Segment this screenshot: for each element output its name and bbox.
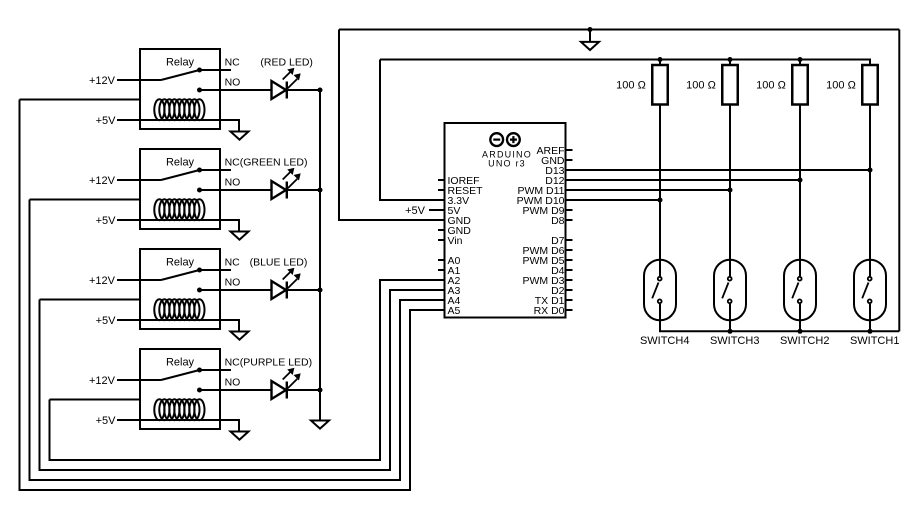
switch S4 SWITCH4 [644, 260, 676, 321]
wire GND pin to top ground bus [339, 30, 445, 221]
relay K4 switch arm [161, 370, 200, 380]
wire +12V to relay K2 common [117, 179, 161, 181]
svg-text:+5V: +5V [96, 115, 117, 127]
wire relay K1 NO to LED anode [200, 89, 272, 91]
junction LED ground bus [318, 188, 323, 193]
pin A5 (left) stub [438, 309, 445, 311]
wire resistor R3 bottom to switch [799, 105, 801, 277]
junction LED ground bus [318, 288, 323, 293]
relay K1 [140, 49, 220, 129]
pin D12 (right) stub [566, 179, 573, 181]
junction D12 net at column x=800 [798, 178, 803, 183]
junction resistor R2 top on 3.3V bus [728, 57, 733, 62]
pin AREF (right) stub [566, 149, 573, 151]
svg-text:A5: A5 [448, 305, 461, 317]
pin D7 (right) stub [566, 239, 573, 241]
svg-text:Vin: Vin [448, 235, 463, 247]
svg-text:NO: NO [225, 377, 241, 389]
wire relay K2 coil drive to left bus [30, 199, 141, 201]
switch S3 SWITCH3 [714, 260, 746, 321]
pin A0 (left) stub [438, 259, 445, 261]
LED D1 [272, 69, 301, 100]
svg-text:Relay: Relay [166, 257, 195, 269]
relay K1 NO contact [197, 88, 202, 93]
relay K4 NO contact [197, 388, 202, 393]
junction resistor R1 top on 3.3V bus [658, 57, 663, 62]
pin PWM D3 (right) stub [566, 279, 573, 281]
wire +5V to relay K4 coil [117, 420, 239, 432]
resistor R2 100 ohm [722, 60, 738, 105]
svg-text:(RED LED): (RED LED) [260, 56, 313, 68]
pin RESET (left) stub [438, 189, 445, 191]
resistor R3 100 ohm [792, 60, 808, 105]
svg-text:NC(GREEN LED): NC(GREEN LED) [225, 156, 308, 168]
junction LED ground bus [318, 88, 323, 93]
svg-text:100 Ω: 100 Ω [686, 80, 716, 92]
wire relay K2 NO to LED anode [200, 189, 272, 191]
relay K4 NC contact [197, 368, 231, 373]
resistor R4 100 ohm [862, 60, 878, 105]
wire resistor R4 bottom to switch [869, 105, 871, 277]
svg-text:SWITCH2: SWITCH2 [780, 335, 830, 347]
svg-text:SWITCH4: SWITCH4 [640, 335, 690, 347]
pin PWM D5 (right) stub [566, 259, 573, 261]
ground symbol on top bus [581, 27, 599, 50]
wire 3.3V pin to resistor bus [380, 60, 445, 201]
junction LED ground bus [318, 388, 323, 393]
junction SWITCH3 on ground bus [728, 329, 733, 334]
svg-text:Relay: Relay [166, 57, 195, 69]
junction D10 net at column x=660 [658, 198, 663, 203]
svg-text:D8: D8 [551, 215, 565, 227]
ground symbol below relay K3 [231, 332, 249, 340]
Arduino logo [490, 133, 520, 146]
switch S2 SWITCH2 [784, 260, 816, 321]
pin A4 (left) stub [438, 299, 445, 301]
wire A4 to relay K2 coil [30, 200, 445, 481]
wire relay K3 coil drive to left bus [40, 299, 141, 301]
relay K2 switch arm [161, 170, 200, 180]
pin GND (left) stub [438, 229, 445, 231]
pin IOREF (left) stub [438, 179, 445, 181]
wire A5 to relay K1 coil [20, 100, 445, 491]
svg-text:NC(PURPLE LED): NC(PURPLE LED) [225, 356, 313, 368]
svg-text:NO: NO [225, 277, 241, 289]
wire top ground bus [339, 29, 899, 31]
svg-text:+5V: +5V [405, 205, 426, 217]
pin 5V (left) stub [438, 209, 445, 211]
wire LED D1 cathode to LED ground bus [287, 89, 320, 91]
relay K3 NC contact [197, 268, 231, 273]
svg-text:100 Ω: 100 Ω [826, 80, 856, 92]
svg-text:SWITCH1: SWITCH1 [850, 335, 900, 347]
wire relay K3 NO to LED anode [200, 289, 272, 291]
switch S1 SWITCH1 [854, 260, 886, 321]
wire switch SWITCH4 bottom to ground bus [659, 304, 661, 331]
pin A3 (left) stub [438, 289, 445, 291]
wire +5V stub to 5V pin [429, 209, 445, 211]
relay K4 coil [154, 399, 204, 420]
svg-text:Relay: Relay [166, 357, 195, 369]
relay K1 NC contact [197, 68, 231, 73]
wire switch SWITCH1 bottom to ground bus [869, 304, 871, 331]
svg-text:+5V: +5V [96, 215, 117, 227]
pin GND (right) stub [566, 159, 573, 161]
junction SWITCH2 on ground bus [798, 329, 803, 334]
relay K2 coil [154, 199, 204, 220]
wire relay K4 coil drive to left bus [50, 399, 141, 401]
ground symbol below relay K4 [231, 432, 249, 440]
svg-text:Relay: Relay [166, 157, 195, 169]
svg-text:+12V: +12V [89, 375, 116, 387]
wire switch ground bus [660, 320, 899, 331]
svg-text:NO: NO [225, 177, 241, 189]
wire LED D2 cathode to LED ground bus [287, 189, 320, 191]
pin 3.3V (left) stub [438, 199, 445, 201]
pin PWM D11 (right) stub [566, 189, 573, 191]
pin D2 (right) stub [566, 289, 573, 291]
wire +12V to relay K3 common [117, 279, 161, 281]
svg-text:+5V: +5V [96, 315, 117, 327]
relay K3 [140, 249, 220, 329]
wire D12 to switch2 column [566, 179, 801, 181]
svg-text:RX D0: RX D0 [534, 305, 565, 317]
wire D13 to switch1 column [566, 169, 871, 171]
svg-text:+5V: +5V [96, 415, 117, 427]
wire +12V to relay K4 common [117, 379, 161, 381]
pin A1 (left) stub [438, 269, 445, 271]
wire A3 to relay K3 coil [40, 290, 445, 470]
wire LED D3 cathode to LED ground bus [287, 289, 320, 291]
pin RX D0 (right) stub [566, 309, 573, 311]
svg-text:SWITCH3: SWITCH3 [710, 335, 760, 347]
wire +5V to relay K1 coil [117, 120, 239, 132]
pin D8 (right) stub [566, 219, 573, 221]
relay K2 NO contact [197, 188, 202, 193]
svg-text:100 Ω: 100 Ω [756, 80, 786, 92]
pin PWM D6 (right) stub [566, 249, 573, 251]
wire 3.3V resistor bus [380, 60, 870, 66]
wire relay K1 coil drive to left bus [20, 99, 141, 101]
junction D11 net at column x=730 [728, 188, 733, 193]
pin D13 (right) stub [566, 169, 573, 171]
ground symbol below relay K2 [231, 232, 249, 240]
relay K4 [140, 349, 220, 429]
wire A2 to relay K4 coil [50, 280, 445, 460]
svg-text:(BLUE LED): (BLUE LED) [250, 256, 308, 268]
svg-text:+12V: +12V [89, 275, 116, 287]
wire +5V to relay K3 coil [117, 320, 239, 332]
svg-text:UNO r3: UNO r3 [488, 159, 526, 169]
LED D3 [272, 269, 301, 300]
junction resistor R3 top on 3.3V bus [798, 57, 803, 62]
relay K2 NC contact [197, 168, 231, 173]
pin GND (left) stub [438, 219, 445, 221]
relay K2 [140, 149, 220, 229]
relay K3 switch arm [161, 270, 200, 280]
wire switch SWITCH2 bottom to ground bus [799, 304, 801, 331]
wire resistor R1 bottom to switch [659, 105, 661, 277]
ground symbol LED bus [311, 421, 329, 429]
wire LED cathode ground bus [319, 90, 321, 421]
pin PWM D10 (right) stub [566, 199, 573, 201]
pin PWM D9 (right) stub [566, 209, 573, 211]
wire LED D4 cathode to LED ground bus [287, 389, 320, 391]
wire +5V to relay K2 coil [117, 220, 239, 232]
relay K1 coil [154, 99, 204, 120]
relay K3 coil [154, 299, 204, 320]
svg-text:NO: NO [225, 77, 241, 89]
IC U1: Arduino UNO r3 module [445, 123, 566, 318]
pin TX D1 (right) stub [566, 299, 573, 301]
wire D11 to switch3 column [566, 189, 731, 191]
resistor R1 100 ohm [652, 60, 668, 105]
pin Vin (left) stub [438, 239, 445, 241]
wire switch SWITCH3 bottom to ground bus [729, 304, 731, 331]
junction SWITCH1 on ground bus [868, 329, 873, 334]
wire D10 to switch4 column [566, 199, 661, 201]
svg-text:100 Ω: 100 Ω [616, 80, 646, 92]
ground symbol below relay K1 [231, 132, 249, 140]
svg-text:NC: NC [225, 256, 241, 268]
pin D4 (right) stub [566, 269, 573, 271]
svg-text:+12V: +12V [89, 175, 116, 187]
svg-text:+12V: +12V [89, 75, 116, 87]
relay K3 NO contact [197, 288, 202, 293]
wire +12V to relay K1 common [117, 79, 161, 81]
pin A2 (left) stub [438, 279, 445, 281]
svg-text:NC: NC [225, 56, 241, 68]
relay K1 switch arm [161, 70, 200, 80]
wire resistor R2 bottom to switch [729, 105, 731, 277]
wire relay K4 NO to LED anode [200, 389, 272, 391]
junction D13 net at column x=870 [868, 168, 873, 173]
LED D4 [272, 369, 301, 400]
wire right edge down to switch ground bus [898, 30, 900, 332]
LED D2 [272, 169, 301, 200]
